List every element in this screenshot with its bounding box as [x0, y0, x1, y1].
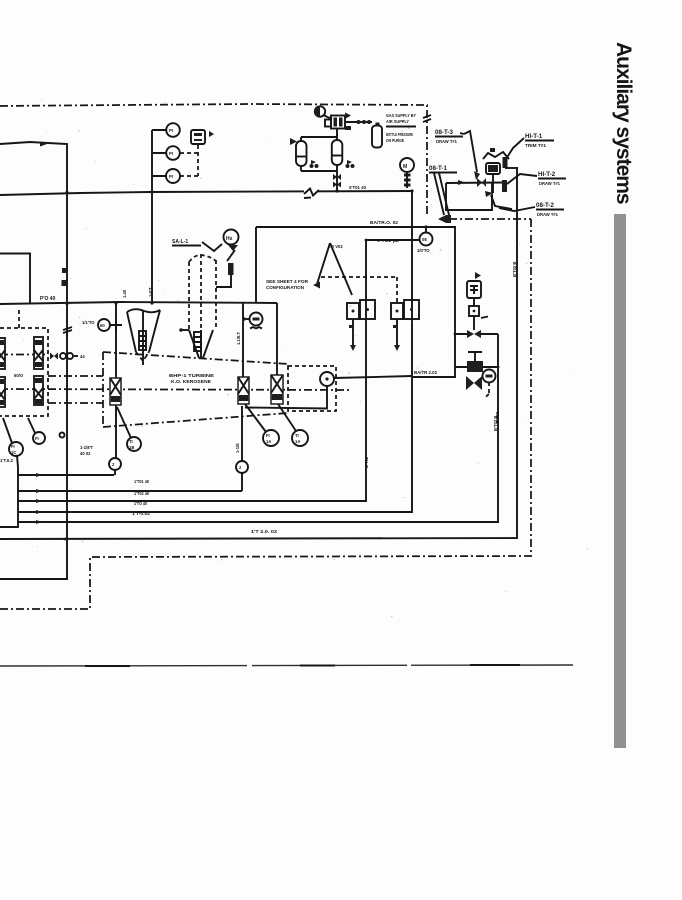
- svg-text:1-0 V02: 1-0 V02: [328, 244, 343, 249]
- svg-text:DRAW T#1: DRAW T#1: [539, 181, 561, 186]
- svg-text:B'T02: B'T02: [495, 411, 500, 423]
- svg-text:PI: PI: [169, 174, 173, 179]
- svg-text:1/0'TO: 1/0'TO: [417, 248, 430, 253]
- svg-text:SA-L-1: SA-L-1: [172, 239, 188, 245]
- svg-text:FI: FI: [11, 444, 15, 449]
- svg-text:1/1'TO: 1/1'TO: [82, 320, 95, 325]
- svg-text:1A: 1A: [266, 439, 271, 444]
- svg-text:1'T02 40: 1'T02 40: [134, 491, 150, 496]
- svg-text:DRAW T#1: DRAW T#1: [537, 212, 559, 217]
- svg-text:08-T-3: 08-T-3: [435, 129, 453, 136]
- svg-text:B'T02: B'T02: [364, 456, 369, 468]
- svg-text:0'TO2 p2: 0'TO2 p2: [377, 238, 400, 243]
- svg-text:P'O 40: P'O 40: [40, 296, 56, 302]
- svg-text:K.O. KEROSENE: K.O. KEROSENE: [171, 379, 211, 384]
- svg-text:0'T01 40: 0'T01 40: [349, 185, 367, 190]
- svg-text:60: 60: [100, 323, 105, 328]
- svg-text:CONFIGURATION: CONFIGURATION: [266, 285, 304, 290]
- svg-text:2: 2: [112, 462, 115, 467]
- svg-text:1.1/8.T: 1.1/8.T: [236, 332, 241, 345]
- svg-text:60/O: 60/O: [14, 373, 24, 378]
- svg-text:PI: PI: [169, 151, 173, 156]
- svg-text:BHP-1 TURBINE: BHP-1 TURBINE: [169, 373, 214, 378]
- svg-text:FI: FI: [35, 436, 39, 441]
- svg-text:08-T-1: 08-T-1: [429, 165, 447, 172]
- svg-text:1C: 1C: [11, 450, 16, 455]
- svg-text:BA/TR.O. 02: BA/TR.O. 02: [370, 220, 399, 225]
- svg-text:DRAW T#1: DRAW T#1: [436, 139, 458, 144]
- svg-text:1-0'T: 1-0'T: [148, 287, 153, 297]
- svg-text:1.40: 1.40: [122, 289, 127, 298]
- svg-text:1-1/8: 1-1/8: [235, 443, 240, 453]
- svg-text:1'TO 40: 1'TO 40: [134, 501, 148, 506]
- svg-text:SEE SHEET 4 FOR: SEE SHEET 4 FOR: [266, 279, 308, 284]
- svg-text:44: 44: [80, 354, 85, 359]
- svg-text:08: 08: [422, 237, 427, 242]
- svg-text:M: M: [403, 164, 407, 170]
- svg-text:TI: TI: [295, 433, 299, 438]
- svg-text:2: 2: [239, 465, 242, 470]
- svg-text:GAS SUPPLY BY: GAS SUPPLY BY: [386, 113, 416, 118]
- svg-text:1'T.0.2: 1'T.0.2: [0, 458, 14, 463]
- svg-text:Hs: Hs: [226, 236, 233, 242]
- svg-text:HI-T-1: HI-T-1: [525, 133, 543, 140]
- svg-text:BOTTLE PRESSURE: BOTTLE PRESSURE: [386, 132, 413, 137]
- svg-text:TRIM T#1: TRIM T#1: [525, 143, 547, 148]
- svg-text:PI: PI: [169, 128, 173, 133]
- svg-text:40 02: 40 02: [80, 451, 91, 456]
- svg-text:HI-T-2: HI-T-2: [538, 171, 556, 178]
- svg-text:Auxiliary systems: Auxiliary systems: [612, 42, 635, 204]
- svg-text:FI: FI: [266, 433, 270, 438]
- svg-text:TI: TI: [129, 439, 133, 444]
- svg-text:1-1/8'T: 1-1/8'T: [80, 445, 94, 450]
- svg-text:1A: 1A: [295, 439, 300, 444]
- svg-text:ON PURGE: ON PURGE: [386, 138, 404, 143]
- svg-text:1'T 2.0. 02: 1'T 2.0. 02: [251, 529, 278, 534]
- svg-text:1'T01 40: 1'T01 40: [134, 479, 150, 484]
- svg-text:BA/TR 2.02: BA/TR 2.02: [414, 370, 438, 375]
- svg-text:B'T02 B: B'T02 B: [512, 262, 517, 277]
- svg-text:1B: 1B: [129, 445, 134, 450]
- svg-text:08-T-2: 08-T-2: [536, 202, 554, 209]
- svg-text:AIR SUPPLY: AIR SUPPLY: [386, 119, 409, 124]
- svg-text:1'T-0.02: 1'T-0.02: [132, 511, 151, 516]
